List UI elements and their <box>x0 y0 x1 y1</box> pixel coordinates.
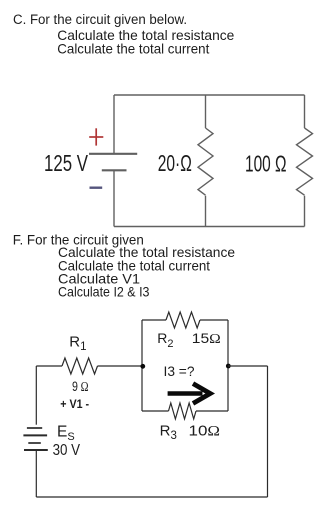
wire: box top edge left of R2 <box>142 319 166 321</box>
svg-text:10Ω: 10Ω <box>189 423 221 440</box>
wire: box top edge right of R2 <box>200 319 228 321</box>
svg-text:I3 =?: I3 =? <box>164 363 195 379</box>
wire: Es to R1 <box>36 365 62 367</box>
wire: box bottom edge right of R3 <box>196 410 228 412</box>
wire: circuit C left branch lower (from battery -) <box>113 171 115 227</box>
wire: right branch upper <box>304 95 306 128</box>
svg-text:30 V: 30 V <box>53 442 81 459</box>
wire: box left branch vertical <box>141 320 143 411</box>
wire: circuit C left branch upper (to battery +) <box>113 95 115 153</box>
wire: box right branch vertical <box>227 320 229 411</box>
svg-text:125 V: 125 V <box>44 150 88 176</box>
wire: middle branch lower <box>205 196 207 227</box>
wire: right branch lower <box>304 196 306 227</box>
wire: R1 to node A <box>98 365 143 367</box>
current direction arrow I3 <box>168 384 211 404</box>
battery Es plate 2 (long) <box>23 434 47 436</box>
wire: left rail lower (battery to bottom) <box>35 450 37 497</box>
wire: bottom rail <box>36 496 267 498</box>
wire: left rail upper (R1 wire down to battery) <box>35 366 37 425</box>
resistor R1 zigzag <box>62 358 97 374</box>
resistor 20 ohm zigzag <box>198 128 213 195</box>
node B junction dot (right) <box>226 364 231 369</box>
resistor R3 zigzag <box>169 403 197 419</box>
svg-text:ES: ES <box>57 423 75 443</box>
svg-text:15Ω: 15Ω <box>192 330 221 347</box>
svg-text:20·Ω: 20·Ω <box>158 150 192 176</box>
wire: circuit C bottom rail <box>114 226 305 228</box>
resistor 100 ohm zigzag <box>297 128 313 195</box>
wire: circuit C top rail <box>114 94 305 96</box>
svg-text:C. For the circuit given below: C. For the circuit given below. <box>13 12 187 28</box>
svg-text:R2: R2 <box>157 330 173 350</box>
wire: box bottom edge left of R3 <box>142 410 169 412</box>
battery Es plate 3 (short) <box>28 442 41 444</box>
wire: right rail vertical <box>267 366 269 497</box>
resistor R2 zigzag <box>166 312 200 328</box>
battery plus polarity mark <box>89 128 103 145</box>
svg-text:R3: R3 <box>160 423 177 443</box>
node A junction dot (left) <box>140 364 145 369</box>
svg-text:+ V1 -: + V1 - <box>60 397 89 411</box>
wire: node B to right rail <box>228 365 268 367</box>
battery V1 125V positive plate <box>89 153 137 155</box>
svg-text:Calculate the total current: Calculate the total current <box>57 41 209 57</box>
svg-text:9 Ω: 9 Ω <box>72 378 89 395</box>
battery minus polarity mark <box>90 186 103 188</box>
battery V1 125V negative plate <box>102 169 127 171</box>
svg-text:100 Ω: 100 Ω <box>245 150 287 176</box>
wire: middle branch upper <box>205 95 207 128</box>
svg-text:Calculate I2 & I3: Calculate I2 & I3 <box>58 284 150 300</box>
battery Es plate 4 (long) <box>24 449 48 451</box>
svg-text:R1: R1 <box>69 333 86 353</box>
battery Es plate 1 (short) <box>27 427 42 429</box>
